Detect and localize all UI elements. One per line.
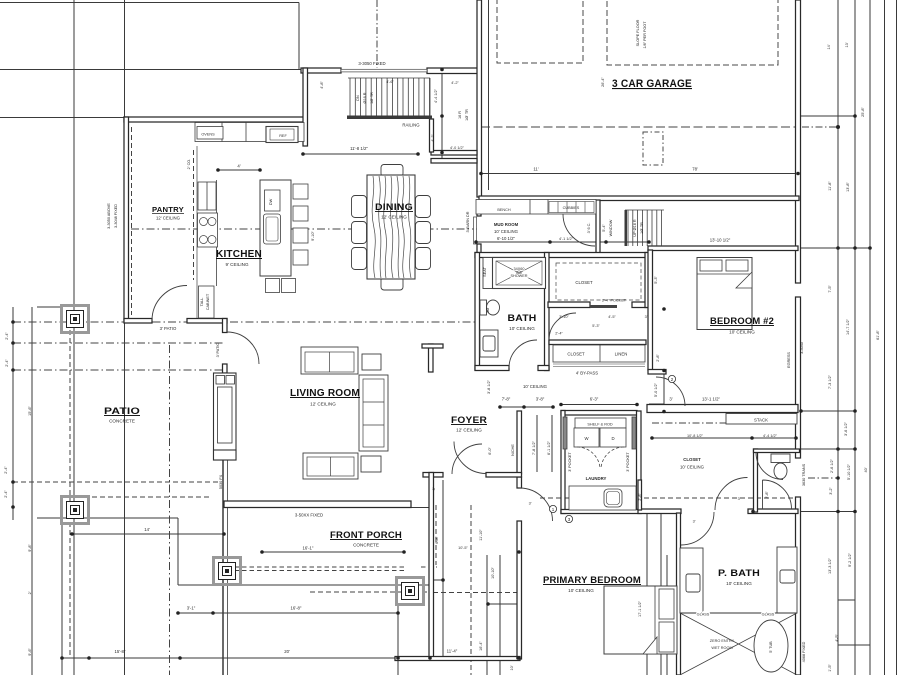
svg-text:3': 3'	[432, 487, 436, 490]
svg-text:CLOSET: CLOSET	[575, 280, 593, 285]
mudroom dim line	[476, 241, 650, 243]
svg-text:NICHE: NICHE	[511, 444, 515, 456]
wall: house west at porch	[429, 473, 434, 658]
svg-text:OVENS: OVENS	[201, 133, 215, 137]
wall: patio door wall east part	[187, 319, 227, 324]
wall: stair north w window	[301, 68, 341, 73]
shower	[483, 258, 493, 289]
svg-text:4068 FIXED: 4068 FIXED	[802, 641, 806, 662]
svg-text:12' CEILING: 12' CEILING	[456, 428, 482, 433]
svg-text:4'-1 1/2": 4'-1 1/2"	[559, 237, 574, 241]
svg-text:4' BY-PASS: 4' BY-PASS	[576, 371, 598, 376]
left dim verticals	[31, 307, 33, 675]
svg-text:1'-5": 1'-5"	[828, 664, 832, 672]
wall: landing	[431, 151, 477, 156]
wall: garage west	[477, 0, 482, 197]
door: bedroom2	[656, 377, 685, 406]
porch 3-1 dim	[178, 612, 398, 614]
svg-text:11'-8 1/2": 11'-8 1/2"	[350, 146, 368, 151]
door: patio at kitchen	[152, 286, 187, 321]
svg-text:DW: DW	[269, 198, 273, 205]
svg-text:FOYER: FOYER	[451, 415, 487, 426]
svg-text:6'-0": 6'-0"	[488, 447, 492, 455]
porch north edge line	[224, 507, 429, 509]
barn door slab	[474, 217, 477, 244]
wall: bath/closet divider	[545, 253, 550, 371]
svg-text:3-3050 FIXED: 3-3050 FIXED	[358, 61, 385, 66]
svg-text:CLOSET: CLOSET	[567, 352, 585, 357]
svg-text:2'-8": 2'-8"	[765, 491, 769, 499]
svg-text:13'-1 1/2": 13'-1 1/2"	[702, 397, 721, 402]
svg-text:5030 FX: 5030 FX	[219, 474, 223, 489]
svg-text:3': 3'	[693, 520, 696, 524]
wall: bath band north	[475, 253, 649, 258]
bench/cubbies row	[476, 200, 596, 215]
svg-text:15'-8": 15'-8"	[115, 649, 126, 654]
svg-text:3' PATIO: 3' PATIO	[216, 343, 220, 358]
svg-text:7'-3 1/2": 7'-3 1/2"	[828, 374, 832, 389]
wall: foyer south left	[423, 473, 443, 478]
door: wc	[763, 480, 792, 509]
door: primary entry	[520, 488, 553, 521]
wall: primary west lower	[517, 521, 522, 659]
top horizontal line	[0, 2, 299, 4]
wall: laundry north	[561, 411, 637, 416]
svg-text:25'-8": 25'-8"	[861, 107, 865, 117]
ovens box	[197, 127, 223, 140]
door: mudroom to hall	[563, 214, 595, 246]
wall: stair east below railing	[430, 119, 434, 152]
svg-text:WET ROOM: WET ROOM	[711, 646, 732, 650]
svg-text:10' CEILING: 10' CEILING	[509, 326, 535, 331]
sofa right vertical	[359, 375, 388, 451]
svg-text:3 CAR GARAGE: 3 CAR GARAGE	[612, 78, 692, 90]
svg-text:40': 40'	[864, 467, 868, 472]
svg-text:5'-3": 5'-3"	[592, 324, 600, 328]
pocket door bar	[590, 305, 617, 308]
svg-text:6'-10 1/2": 6'-10 1/2"	[497, 236, 516, 241]
svg-text:7'-5": 7'-5"	[828, 285, 832, 293]
svg-text:1Ø' TR: 1Ø' TR	[465, 109, 469, 121]
foyer hall dim verticals	[536, 415, 538, 472]
right dim stack verticals	[837, 0, 839, 675]
svg-text:CUBBIES: CUBBIES	[563, 206, 580, 210]
svg-text:REF: REF	[279, 134, 287, 138]
svg-text:10'-5": 10'-5"	[458, 546, 468, 550]
left horizontal at kitchen wall level	[0, 117, 124, 119]
svg-text:4'-2": 4'-2"	[431, 134, 435, 142]
svg-text:5'-3": 5'-3"	[654, 276, 658, 284]
svg-text:10' CEILING: 10' CEILING	[523, 384, 548, 389]
svg-text:7'-8": 7'-8"	[502, 397, 511, 402]
svg-text:PATIO: PATIO	[104, 406, 140, 417]
svg-text:78': 78'	[692, 167, 698, 172]
svg-text:DN: DN	[356, 95, 360, 101]
porch line through column3	[397, 606, 399, 675]
loveseat bottom	[303, 453, 358, 479]
right vanity	[777, 547, 797, 613]
door: closet to primary	[681, 512, 714, 545]
svg-text:MUD ROOM: MUD ROOM	[494, 222, 519, 227]
patio column tie	[37, 306, 62, 308]
wall: bath west	[475, 253, 480, 371]
railing	[347, 116, 432, 120]
svg-text:15'-6": 15'-6"	[28, 406, 32, 416]
svg-text:10' CEILING: 10' CEILING	[680, 465, 705, 470]
svg-text:12' CEILING: 12' CEILING	[156, 216, 181, 221]
right connectors	[798, 115, 855, 117]
wall: garage east + bedroom2 east	[796, 0, 801, 283]
svg-text:1Ø' TR: 1Ø' TR	[640, 222, 644, 234]
svg-text:16'-8": 16'-8"	[291, 606, 302, 611]
svg-text:3'-10": 3'-10"	[559, 315, 569, 319]
svg-text:9'-10": 9'-10"	[311, 231, 315, 241]
island sink	[264, 214, 281, 244]
svg-text:7'-8 1/2": 7'-8 1/2"	[532, 440, 536, 455]
svg-text:LINEN: LINEN	[615, 352, 628, 357]
dining 11-8 dim	[303, 153, 418, 155]
svg-text:BEDROOM #2: BEDROOM #2	[710, 316, 774, 327]
porch tie lines	[429, 579, 443, 581]
svg-text:34X60: 34X60	[514, 267, 525, 271]
svg-text:3'-8 1/2": 3'-8 1/2"	[487, 379, 491, 394]
wall: wc north	[754, 449, 800, 453]
wall: closet south	[548, 302, 590, 308]
svg-text:2'-4": 2'-4"	[5, 359, 9, 367]
column: patio south	[62, 497, 89, 524]
svg-text:6'-8": 6'-8"	[435, 536, 439, 544]
svg-text:10': 10'	[510, 665, 514, 670]
svg-text:2'-4": 2'-4"	[5, 332, 9, 340]
svg-text:6'-1 1/2": 6'-1 1/2"	[547, 440, 551, 455]
svg-text:EGRESS: EGRESS	[787, 352, 791, 368]
svg-text:3' PATIO: 3' PATIO	[160, 326, 177, 331]
wall: primary closet south w openings	[638, 509, 681, 514]
wall: stair west	[303, 68, 308, 146]
tub	[754, 620, 788, 672]
wall: wc west	[754, 449, 758, 512]
wall: mudroom east	[596, 200, 600, 253]
svg-text:11'-8": 11'-8"	[828, 181, 832, 191]
counter w sink	[569, 486, 636, 510]
bar stools	[293, 184, 308, 199]
wall: primary closet west	[638, 480, 642, 510]
svg-text:UP Ø16 R: UP Ø16 R	[633, 219, 637, 236]
svg-text:10'-10": 10'-10"	[491, 566, 495, 578]
column: patio north	[62, 306, 89, 333]
svg-text:2' CO.: 2' CO.	[187, 159, 191, 170]
svg-text:BENCH: BENCH	[497, 208, 511, 212]
svg-text:KITCHEN: KITCHEN	[216, 249, 262, 260]
vertical grid x74	[73, 0, 75, 675]
svg-text:4'-4 1/2": 4'-4 1/2"	[763, 434, 778, 438]
wall: west kitchen/pantry	[124, 117, 129, 320]
patio 14' dim	[72, 533, 224, 535]
hall dims under bath	[500, 406, 553, 408]
garage door 2	[607, 0, 778, 65]
wall: laundry east	[637, 411, 642, 511]
upper cabinet row	[195, 123, 304, 142]
svg-text:10' CEILING: 10' CEILING	[726, 581, 752, 586]
svg-text:CONCRETE: CONCRETE	[353, 543, 379, 548]
svg-text:16'-4": 16'-4"	[479, 641, 483, 651]
svg-text:2'-6 1/2": 2'-6 1/2"	[830, 458, 834, 473]
svg-text:2'-4": 2'-4"	[4, 466, 8, 474]
svg-text:3' POCKET: 3' POCKET	[626, 452, 630, 472]
door: foyer closet	[454, 442, 486, 474]
svg-text:WINDOW: WINDOW	[609, 219, 613, 236]
svg-text:14'-7 1/2": 14'-7 1/2"	[846, 318, 850, 335]
svg-text:GLASS: GLASS	[697, 613, 710, 617]
tall cabinet	[199, 286, 215, 318]
svg-text:11'-4": 11'-4"	[447, 649, 458, 654]
svg-text:PANTRY: PANTRY	[152, 207, 184, 214]
svg-text:SEAT: SEAT	[483, 267, 487, 277]
svg-text:SLOPE FLOOR: SLOPE FLOOR	[636, 19, 640, 46]
bottom 20' dim	[62, 657, 520, 659]
svg-text:9' CEILING: 9' CEILING	[225, 262, 249, 267]
vertical grid x124	[124, 0, 126, 675]
table wood grain	[372, 176, 411, 278]
wall: primary west upper	[517, 477, 522, 488]
svg-text:5' TUB: 5' TUB	[769, 641, 773, 653]
svg-text:10' CEILING: 10' CEILING	[729, 330, 755, 335]
svg-text:13'-3 1/2": 13'-3 1/2"	[828, 557, 832, 574]
svg-text:13'-10 1/2": 13'-10 1/2"	[710, 238, 731, 243]
svg-text:5'-10 1/2": 5'-10 1/2"	[847, 463, 851, 480]
svg-text:9'-2 1/2": 9'-2 1/2"	[848, 552, 852, 567]
wall: bedroom2 west	[648, 250, 653, 370]
wall: laundry west	[561, 411, 565, 514]
svg-text:61'-8": 61'-8"	[876, 330, 880, 340]
wall: living south	[224, 501, 411, 508]
svg-text:3'-8": 3'-8"	[536, 397, 545, 402]
svg-text:1Ø' TR: 1Ø' TR	[370, 92, 374, 104]
wall: bath south w door gap	[475, 366, 509, 371]
side table bottom	[361, 456, 381, 472]
fridge REF	[266, 127, 298, 143]
svg-text:26'-4": 26'-4"	[601, 77, 605, 87]
svg-text:16 R: 16 R	[458, 111, 462, 119]
dashed bifold arcs	[577, 447, 624, 468]
svg-text:4'-0 1/2": 4'-0 1/2"	[450, 146, 465, 150]
wall: kitchen north	[124, 117, 305, 122]
svg-text:11'-10": 11'-10"	[479, 529, 483, 541]
svg-text:RAILING: RAILING	[402, 123, 420, 128]
svg-text:3': 3'	[738, 497, 741, 501]
garage centre post	[643, 132, 663, 165]
svg-text:BATH: BATH	[508, 313, 537, 324]
svg-text:CLOSET: CLOSET	[683, 457, 701, 462]
svg-text:3' POCKET: 3' POCKET	[568, 452, 572, 472]
svg-text:2'-8": 2'-8"	[638, 493, 642, 501]
door: patio side	[227, 332, 259, 364]
svg-text:3' BARN DR: 3' BARN DR	[466, 211, 470, 232]
bottom centre dim verticals	[486, 555, 488, 675]
svg-text:PRIMARY BEDROOM: PRIMARY BEDROOM	[543, 575, 641, 586]
svg-text:3': 3'	[529, 502, 532, 506]
svg-text:SHELF & ROD: SHELF & ROD	[587, 423, 613, 427]
patio edge solid	[37, 518, 430, 585]
window sill at stair north	[341, 69, 427, 72]
svg-text:4'-5": 4'-5"	[608, 315, 616, 319]
bed	[697, 258, 752, 330]
garage door 1	[497, 0, 583, 63]
svg-text:ZERO ENTRY: ZERO ENTRY	[710, 639, 735, 643]
svg-text:SHOWER: SHOWER	[510, 274, 527, 278]
svg-text:2'-4" POCKET: 2'-4" POCKET	[602, 299, 627, 303]
loveseat top	[301, 347, 358, 374]
svg-text:4'-8": 4'-8"	[320, 81, 324, 89]
svg-text:12' CEILING: 12' CEILING	[381, 215, 407, 220]
svg-text:FRONT PORCH: FRONT PORCH	[330, 530, 402, 541]
left vanity	[680, 548, 703, 613]
svg-text:6'-3": 6'-3"	[590, 397, 599, 402]
svg-text:1Ø': 1Ø'	[486, 307, 490, 313]
svg-text:3': 3'	[645, 315, 648, 319]
svg-text:5'-0 1/2": 5'-0 1/2"	[654, 382, 658, 397]
door: hall to closet	[715, 478, 748, 511]
vertical corner x299	[298, 3, 300, 70]
svg-text:3630 TRANS: 3630 TRANS	[802, 463, 806, 486]
svg-text:10' CEILING: 10' CEILING	[494, 229, 519, 234]
svg-text:4'-4 1/2": 4'-4 1/2"	[434, 88, 438, 103]
svg-text:LIVING ROOM: LIVING ROOM	[290, 388, 360, 399]
svg-text:D: D	[611, 436, 614, 441]
porch beam line through column2	[222, 460, 224, 675]
kitchen 4' dim	[218, 169, 260, 171]
wall: bedroom2 north	[648, 246, 798, 251]
svg-text:9'-8": 9'-8"	[28, 544, 32, 552]
svg-text:STACK: STACK	[754, 418, 768, 423]
svg-text:20': 20'	[284, 649, 290, 654]
svg-text:14': 14'	[827, 44, 831, 49]
svg-text:Ø16 R: Ø16 R	[363, 92, 367, 103]
svg-text:17'-1 1/2": 17'-1 1/2"	[638, 600, 642, 617]
svg-text:3-50XX FIXED: 3-50XX FIXED	[295, 513, 323, 518]
svg-text:3-3048 FIXED: 3-3048 FIXED	[114, 204, 118, 228]
wall: hall cased opening at living east	[429, 344, 434, 372]
svg-text:4'-2": 4'-2"	[451, 81, 459, 85]
side table top	[362, 354, 381, 370]
wall: closet east	[645, 253, 650, 308]
svg-text:P. BATH: P. BATH	[718, 568, 760, 578]
svg-text:9'-6": 9'-6"	[28, 648, 32, 656]
wall: p.bath west	[677, 513, 681, 675]
svg-text:4': 4'	[237, 164, 240, 169]
door: foyer front	[452, 444, 482, 474]
svg-text:14': 14'	[144, 527, 150, 532]
svg-text:4'-5": 4'-5"	[835, 634, 839, 642]
vanity	[480, 330, 498, 357]
wall: bedroom2 door jambs	[648, 370, 666, 375]
svg-text:1/8" PER FOOT: 1/8" PER FOOT	[643, 21, 647, 49]
svg-text:13': 13'	[845, 42, 849, 47]
stack dim	[652, 437, 796, 439]
stair treads DN	[350, 78, 430, 116]
dishwasher	[265, 190, 281, 211]
fridge lower	[198, 182, 216, 210]
wall: second closet top	[549, 340, 646, 345]
door: wc2 top right	[756, 453, 783, 480]
svg-text:CONCRETE: CONCRETE	[109, 419, 135, 424]
kitchen counter edge	[216, 180, 218, 286]
svg-text:16'-1": 16'-1"	[303, 546, 314, 551]
svg-text:CABINET: CABINET	[206, 293, 210, 310]
island	[260, 180, 291, 276]
garage 78' dim line	[481, 173, 798, 175]
porch verticals right of wall	[442, 480, 444, 658]
svg-text:10'-8 1/2": 10'-8 1/2"	[687, 434, 704, 438]
door: bypass hall	[549, 313, 576, 340]
wet room X	[680, 613, 797, 675]
column: porch right	[397, 578, 424, 605]
svg-text:TALL: TALL	[200, 298, 204, 307]
svg-text:3'-6 1/2": 3'-6 1/2"	[844, 421, 848, 436]
svg-text:GLASS: GLASS	[762, 613, 775, 617]
range	[198, 213, 218, 247]
svg-text:3-3050 ABOVE: 3-3050 ABOVE	[107, 203, 111, 229]
svg-text:10' CEILING: 10' CEILING	[568, 588, 594, 593]
svg-text:3': 3'	[669, 397, 672, 402]
svg-text:3' 6 C.: 3' 6 C.	[587, 223, 591, 234]
svg-text:3'-1": 3'-1"	[187, 606, 196, 611]
column: porch mid	[214, 558, 241, 585]
garage interior face line	[488, 0, 490, 190]
wall: patio corner vertical	[223, 319, 228, 333]
upper horizontal line	[0, 69, 301, 71]
glass wall	[680, 612, 797, 614]
svg-text:4'-6": 4'-6"	[386, 80, 394, 84]
wall: bedroom2 south band	[647, 405, 798, 413]
svg-text:3-3040: 3-3040	[800, 342, 804, 354]
svg-text:13'-8": 13'-8"	[846, 182, 850, 192]
svg-text:3'-2": 3'-2"	[829, 487, 833, 495]
porch 16-1 dim	[262, 551, 404, 553]
wall: foyer south right	[486, 473, 522, 478]
stair dim vertical	[441, 70, 443, 164]
door: bath	[509, 340, 537, 368]
wall: patio door wall west part	[124, 319, 152, 324]
wall: garage south	[479, 196, 799, 201]
wall: house south edge	[395, 657, 520, 661]
toilet	[480, 300, 487, 315]
svg-text:5'-4": 5'-4"	[602, 224, 606, 232]
svg-text:DINING: DINING	[375, 202, 413, 212]
svg-text:11': 11'	[533, 167, 538, 172]
svg-text:2': 2'	[28, 591, 32, 594]
svg-text:LAUNDRY: LAUNDRY	[586, 476, 607, 481]
wall: niche/hall west	[517, 411, 522, 474]
svg-text:2'-4": 2'-4"	[555, 332, 563, 336]
svg-text:2'-8": 2'-8"	[656, 354, 660, 362]
wall: laundry south	[561, 510, 641, 514]
svg-text:12' CEILING: 12' CEILING	[310, 402, 336, 407]
svg-text:2'-4": 2'-4"	[4, 490, 8, 498]
wall: mudroom west (barn door wall)	[477, 200, 481, 216]
